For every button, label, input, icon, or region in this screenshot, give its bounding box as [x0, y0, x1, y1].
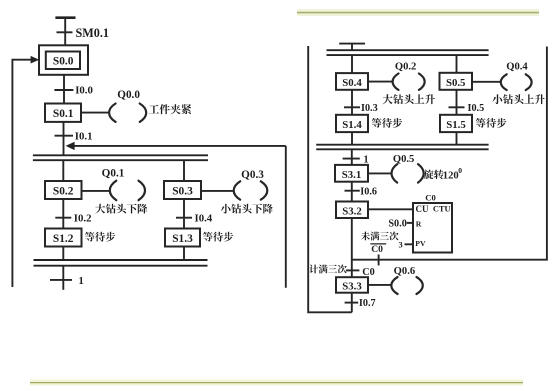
wire S1.2 to convergence [62, 247, 64, 261]
wire S3.3 down [351, 293, 353, 313]
step S1.5 [440, 115, 472, 132]
svg-text:S3.1: S3.1 [342, 169, 362, 181]
wire S0.1 to coil Q0.0 [81, 112, 110, 114]
svg-text:Q0.1: Q0.1 [102, 168, 125, 180]
svg-text:S0.0: S0.0 [388, 218, 406, 229]
wire S0.3 to coil Q0.3 [201, 190, 234, 192]
label 小钻头下降 [221, 204, 273, 214]
decorative bottom green rule [30, 380, 523, 386]
coil Q0.3 [234, 169, 268, 200]
transition tick on loop line (C0-bar) [378, 255, 380, 266]
divergence double bar (right) [327, 50, 489, 55]
svg-text:R: R [416, 219, 422, 228]
svg-text:S0.3: S0.3 [172, 185, 193, 197]
label 等待步 (S1.3) [203, 232, 234, 242]
coil Q0.2 [393, 62, 425, 90]
wire to S0.5 [456, 55, 458, 73]
wire tick to divergence [351, 44, 353, 51]
svg-text:Q0.2: Q0.2 [395, 62, 416, 73]
coil Q0.1 [102, 168, 145, 201]
step S1.3 [165, 229, 200, 247]
svg-text:I0.1: I0.1 [75, 131, 93, 143]
svg-text:Q0.4: Q0.4 [506, 62, 528, 73]
svg-text:S1.2: S1.2 [53, 233, 74, 245]
step S0.1 [45, 104, 81, 122]
wire below convergence [351, 149, 353, 165]
svg-text:S1.5: S1.5 [446, 119, 466, 131]
step S0.5 [440, 73, 473, 90]
label C0 with overline [370, 244, 386, 255]
divergence double bar (left) [33, 155, 208, 160]
coil Q0.6 [391, 266, 422, 294]
wire S0.2 down [62, 199, 64, 229]
svg-text:S1.3: S1.3 [172, 233, 193, 245]
svg-text:CTU: CTU [433, 205, 451, 214]
transition I0.4 tick [176, 217, 192, 219]
svg-text:120: 120 [443, 170, 459, 181]
label 等待步 (S1.5) [476, 118, 507, 128]
svg-text:1: 1 [79, 276, 84, 287]
svg-text:S3.3: S3.3 [342, 281, 362, 293]
svg-text:I0.6: I0.6 [360, 186, 377, 197]
svg-text:I0.3: I0.3 [361, 103, 378, 114]
wire loop right: horizontal + right vertical [352, 47, 547, 260]
svg-text:Q0.5: Q0.5 [393, 154, 414, 165]
transition I0.5 tick [449, 106, 465, 108]
wire S3.2 to CU [368, 208, 413, 210]
wire S0.0 to S0.1 [63, 75, 65, 104]
svg-text:I0.7: I0.7 [359, 298, 376, 309]
svg-text:C0: C0 [362, 267, 374, 278]
svg-text:C0: C0 [371, 244, 383, 255]
wire feedback left vertical [308, 46, 352, 312]
wire S1.5 to convergence [456, 132, 458, 145]
svg-text:3: 3 [399, 240, 403, 249]
wire return from right page with left arrow [66, 142, 286, 288]
svg-text:I0.5: I0.5 [468, 103, 485, 114]
svg-text:Q0.3: Q0.3 [241, 169, 264, 181]
label 计满三次 [309, 265, 347, 274]
counter C0 block [413, 193, 452, 253]
convergence double bar (right) [316, 145, 488, 150]
svg-text:S0.0: S0.0 [53, 56, 74, 68]
wire top vertical [64, 18, 66, 46]
svg-text:I0.0: I0.0 [75, 84, 93, 96]
wire S3.1 down [351, 182, 353, 202]
start T-bar [55, 16, 75, 19]
wire S0.5 down [456, 90, 458, 115]
coil Q0.5 [392, 154, 424, 182]
svg-text:Q0.0: Q0.0 [117, 89, 140, 101]
step S1.4 [336, 115, 368, 132]
label 未满三次 [361, 232, 399, 241]
wire S3.2 down to S3.3 [351, 218, 353, 277]
wire S3.1 to coil Q0.5 [368, 172, 391, 174]
label 大钻头下降 [95, 204, 147, 214]
wire S0.4 down [351, 90, 353, 115]
label 等待步 (S1.2) [85, 232, 116, 242]
wire to S0.4 [351, 55, 353, 73]
arrowhead into S0.0 [31, 56, 40, 64]
decorative top green rule [297, 9, 539, 16]
svg-text:S0.2: S0.2 [53, 185, 74, 197]
wire S1.3 to convergence [183, 247, 185, 261]
svg-text:1: 1 [364, 154, 369, 165]
step S3.2 [336, 202, 368, 219]
label 工件夹紧 [149, 104, 192, 114]
wire S0.3 down [183, 199, 185, 229]
wire S0.2 to coil Q0.1 [82, 190, 111, 192]
wire feedback into S0.0 [12, 60, 31, 287]
wire S0.1 down to divergence [63, 122, 65, 155]
step S0.2 [45, 181, 82, 199]
label 3 + wire to PV [399, 240, 414, 249]
svg-text:0: 0 [458, 166, 462, 175]
transition tick top [339, 43, 365, 45]
coil Q0.4 [501, 62, 532, 91]
transition I0.7 tick [345, 302, 359, 304]
coil Q0.0 [109, 89, 146, 122]
svg-text:S0.1: S0.1 [53, 108, 74, 120]
wire below convergence [62, 266, 64, 290]
svg-text:SM0.1: SM0.1 [76, 26, 110, 40]
transition I0.3 tick [344, 106, 360, 108]
label 等待步 (S1.4) [372, 118, 403, 128]
step S3.1 [335, 165, 368, 182]
step S0.4 [336, 73, 368, 90]
step S0.3 [164, 181, 201, 199]
transition C0 tick [346, 269, 360, 271]
label 旋转120° [424, 166, 463, 182]
svg-text:Q0.6: Q0.6 [394, 266, 415, 277]
wire to S0.2 [62, 160, 64, 181]
step S3.3 [336, 277, 368, 293]
transition I0.0 tick [54, 89, 73, 91]
transition I0.6 tick [345, 190, 360, 192]
transition 1 tick (right) [343, 158, 360, 160]
wire S0.4 to coil Q0.2 [368, 81, 392, 83]
svg-text:I0.2: I0.2 [74, 212, 92, 224]
transition 1 tick (left) [50, 279, 72, 281]
transition SM0.1 tick [57, 31, 73, 33]
transition I0.1 tick [55, 135, 74, 137]
label 大钻头上升 [383, 94, 435, 104]
convergence double bar (left) [34, 260, 208, 266]
wire to S0.3 [183, 160, 185, 181]
svg-text:S0.4: S0.4 [342, 77, 362, 89]
svg-text:CU: CU [416, 204, 429, 214]
label 小钻头上升 [492, 94, 544, 104]
transition I0.2 tick [55, 217, 71, 219]
wire S3.3 to coil Q0.6 [368, 284, 391, 286]
svg-text:S1.4: S1.4 [342, 119, 362, 131]
wire S0.5 to coil Q0.4 [472, 81, 501, 83]
svg-text:C0: C0 [425, 193, 436, 203]
step S1.2 [45, 229, 82, 247]
wire S1.4 to convergence [351, 132, 353, 145]
label S0.0 + wire to R [388, 218, 413, 229]
svg-text:I0.4: I0.4 [195, 212, 213, 224]
svg-text:S3.2: S3.2 [342, 205, 362, 217]
svg-text:S0.5: S0.5 [446, 77, 466, 89]
svg-text:PV: PV [415, 239, 426, 248]
step S0.0 (initial, double box) [39, 45, 88, 75]
